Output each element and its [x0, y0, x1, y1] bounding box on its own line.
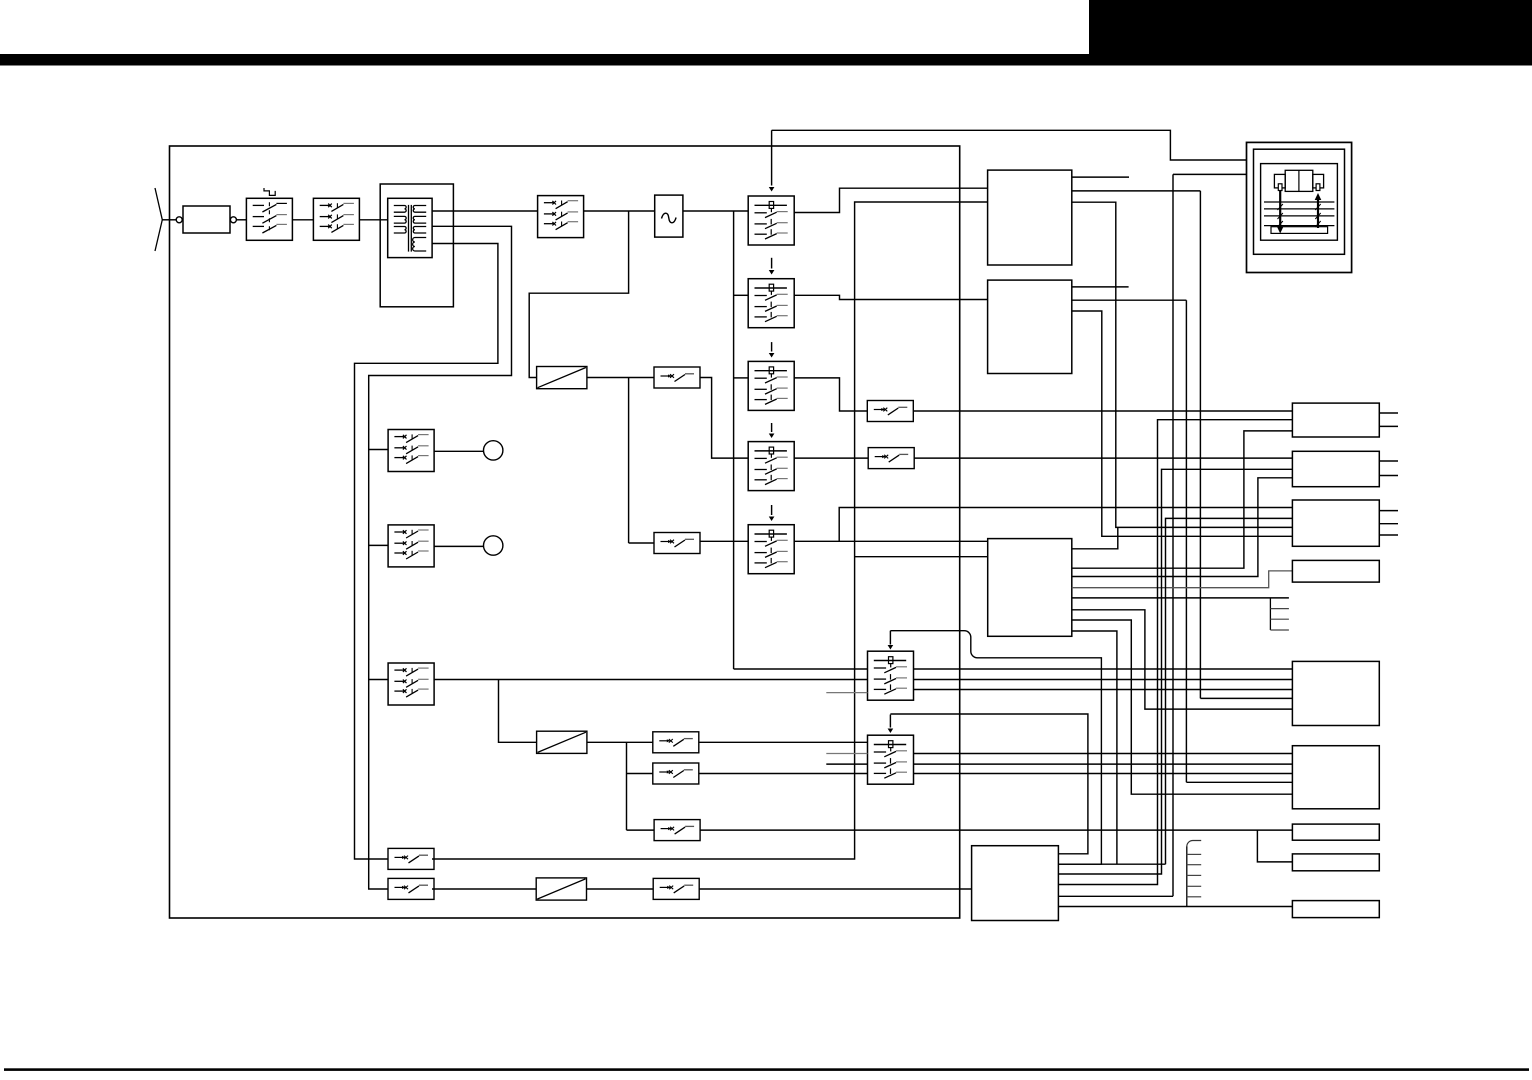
IC U3	[988, 539, 1072, 637]
connector CN9	[1292, 901, 1379, 918]
relay RL4	[748, 442, 794, 491]
wire K2 out2	[914, 763, 1293, 765]
wire branch to CN8	[1257, 830, 1292, 862]
switch S8 dolby	[388, 430, 434, 472]
switch S13	[654, 820, 700, 841]
tape path	[1279, 191, 1281, 232]
wire K2 out1	[914, 753, 1293, 755]
amp block A2	[1292, 746, 1379, 809]
wire RL4 to S7	[794, 457, 868, 459]
connector CN1	[1292, 403, 1379, 437]
header bar	[0, 54, 1532, 66]
mechanism frame	[1247, 142, 1352, 272]
wire	[236, 219, 246, 221]
wire RL2 to IC2	[794, 295, 987, 299]
IC U2	[988, 280, 1072, 373]
wire	[434, 450, 483, 452]
switch S11	[653, 732, 699, 753]
wire T1 out3	[355, 244, 498, 860]
wire	[359, 219, 387, 221]
switch S9 dolby	[388, 525, 434, 567]
wire arrow RL2-RL3	[771, 342, 773, 351]
relay RL5	[748, 525, 794, 574]
relay RL3	[748, 361, 794, 410]
wire U1 out1 stub	[1072, 176, 1129, 178]
trunk wire chain to relay taps	[733, 211, 735, 669]
relay K2	[868, 735, 914, 784]
wire U2 out3	[1072, 311, 1293, 536]
capstan posts	[1278, 184, 1282, 191]
wire arrow RL4-RL5	[771, 505, 773, 515]
relay RL2	[748, 279, 794, 328]
wire S16 to U4	[699, 888, 971, 890]
switch S6	[867, 401, 913, 422]
wire U3 out1	[1072, 527, 1118, 548]
switch S15	[388, 878, 434, 899]
trunk wire riser G mechanism	[1172, 174, 1174, 896]
connector CN2	[1292, 451, 1379, 486]
wire	[584, 210, 655, 212]
switch S10 monitor	[388, 663, 434, 705]
wire K1 out1	[914, 668, 1293, 670]
wire S4 to RL4	[700, 378, 748, 459]
wire U4 out6 riser G	[1058, 895, 1173, 897]
wire K2 in	[826, 763, 867, 765]
wire K2 stub	[826, 753, 867, 755]
connector CN8	[1292, 854, 1379, 871]
input filter FL1	[183, 206, 230, 233]
attenuator AT3	[536, 878, 586, 900]
wire U3 in2	[855, 556, 988, 558]
switch S7	[868, 448, 914, 469]
wire	[587, 377, 654, 379]
wire	[683, 210, 748, 212]
wire RL1 to IC1	[794, 188, 987, 212]
wire U3 out6 to A1	[1072, 610, 1293, 709]
wire	[627, 829, 655, 831]
wire S12 to K2	[699, 773, 868, 775]
attenuator AT2	[537, 731, 587, 753]
harness comb A	[1269, 598, 1271, 630]
relay K1	[868, 651, 914, 700]
wire T1 out1	[432, 210, 537, 212]
wire U3 out5 harness	[1072, 597, 1289, 599]
wire	[369, 679, 388, 681]
wire U3 out8	[1072, 631, 1117, 864]
switch S12	[653, 763, 699, 784]
node test point TP1	[484, 441, 503, 460]
attenuator AT1	[537, 367, 587, 389]
wire U4 out4 to CN2	[1058, 469, 1292, 874]
wire U4 out3 riser to CN3	[1058, 863, 1165, 865]
wire R6 in4	[1186, 781, 1292, 783]
wire to mechanism 2	[1173, 173, 1247, 175]
switch S14	[388, 848, 434, 869]
trunk wire riser F	[1199, 191, 1201, 699]
wire to mechanism 1	[772, 130, 1247, 160]
node test point TP2	[484, 536, 503, 555]
wire tap RL2	[734, 294, 749, 296]
switch S5	[654, 533, 700, 554]
wire	[369, 449, 388, 451]
wire U4 out7 to CN9	[1058, 906, 1292, 908]
wire trunk to K1	[734, 668, 868, 670]
wire K1 trigger	[890, 631, 1101, 865]
wire S5 to RL5	[700, 540, 748, 542]
relay RL1	[748, 196, 794, 245]
switch S1 timer	[246, 198, 292, 240]
header title block	[1089, 0, 1532, 66]
head block	[1285, 170, 1313, 191]
wire U3 out7 to A2	[1072, 620, 1293, 794]
wire RL5 to CN3	[794, 508, 1292, 542]
wire	[587, 888, 654, 890]
harness comb B	[1186, 847, 1188, 907]
wire K1 out3	[914, 689, 1293, 691]
IC U1	[988, 170, 1072, 265]
IC U4 system control	[972, 846, 1059, 921]
wire arrow RL3-RL4	[771, 423, 773, 432]
wire	[434, 545, 483, 547]
wire chain branch	[529, 211, 628, 378]
wire S11 to K2	[699, 741, 868, 743]
node	[230, 217, 236, 223]
wire	[162, 219, 176, 221]
amp block A1	[1292, 661, 1379, 725]
connector CN7	[1292, 824, 1379, 840]
wire arrow RL1-RL2	[771, 258, 773, 269]
wire K1 out2	[914, 679, 1293, 681]
wire	[629, 542, 654, 544]
wire	[292, 219, 313, 221]
wire S10 to K1	[434, 679, 867, 681]
wire K1 stub	[826, 692, 867, 694]
wire R5 in4	[1200, 697, 1292, 699]
switch S2 rec mute	[313, 198, 359, 240]
trunk wire riser E	[1185, 300, 1187, 782]
transformer T1 outer	[380, 184, 453, 307]
wire	[587, 741, 653, 743]
wire U3 out2 to CN1	[1072, 431, 1293, 568]
wire K2 trigger	[890, 714, 1088, 854]
wire U4 out5 to CN1	[1058, 420, 1292, 885]
footer rule	[4, 1068, 1529, 1071]
connector CN4	[1292, 560, 1379, 582]
antenna	[155, 188, 162, 251]
connector CN3	[1292, 500, 1379, 546]
wire	[432, 888, 536, 890]
wire T1 out2	[369, 226, 512, 889]
wire branch	[626, 742, 628, 830]
switch S16	[653, 878, 699, 899]
main unit enclosure	[170, 146, 960, 918]
pulse symbol	[264, 188, 275, 195]
transformer T1	[388, 198, 432, 257]
wire S6 to CN1	[913, 410, 1292, 412]
node input jack	[176, 217, 182, 223]
wire tap RL3	[734, 377, 749, 379]
wire S13 to CN7	[700, 829, 1293, 831]
wire arrow into RL1	[771, 130, 773, 185]
wire branch to AT2	[499, 680, 537, 743]
wire	[369, 544, 388, 546]
wire	[627, 773, 653, 775]
wire U3 out3 to CN2	[1072, 478, 1293, 577]
wire K2 out3	[914, 773, 1293, 775]
wire U3 out4 to CN4	[1072, 571, 1293, 588]
wire U2 out1 stub	[1072, 286, 1129, 288]
oscillator box ~	[655, 195, 683, 237]
wire U1 out2 to riser	[1072, 190, 1201, 192]
wire RL5 to U3	[839, 540, 988, 542]
wire U1 out3	[1072, 202, 1293, 527]
wire U2 out2 to riser	[1072, 299, 1187, 301]
wire RL3 to S6	[794, 378, 867, 411]
trunk wire U1 in2 / bottom switch	[432, 202, 988, 859]
tape guide bar	[1271, 227, 1328, 234]
wire branch to S5	[628, 378, 630, 544]
switch S4	[654, 367, 700, 388]
wire S7 to CN2	[914, 457, 1292, 459]
switch S3 line/mic	[538, 196, 584, 238]
